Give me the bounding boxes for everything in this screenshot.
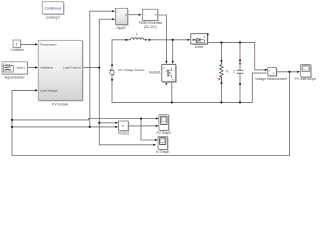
svg-text:(DC-DC): (DC-DC) xyxy=(144,25,157,29)
svg-text:PV load scope: PV load scope xyxy=(295,77,316,81)
powergui block xyxy=(42,2,64,20)
svg-text:DC Voltage Source: DC Voltage Source xyxy=(118,68,145,72)
svg-text:Diode: Diode xyxy=(195,45,204,49)
svg-text:Signal Builder: Signal Builder xyxy=(4,76,25,80)
XY graph PV Graph xyxy=(156,115,171,135)
block mppt controller xyxy=(115,8,128,30)
diode block Diode xyxy=(191,33,210,49)
wire: current from PV module output to vertical x=99.3 xyxy=(82,67,99,69)
product block xyxy=(118,121,129,136)
svg-text:powergui: powergui xyxy=(46,15,60,19)
wire: top rail from DC source through L to diode xyxy=(112,40,126,65)
wire: mppt output to PWM Generator input xyxy=(128,14,141,16)
svg-text:Voltage Measurement: Voltage Measurement xyxy=(255,77,287,81)
scope PV load scope xyxy=(295,65,316,82)
svg-text:Constant: Constant xyxy=(10,48,23,52)
node junction dots xyxy=(11,39,290,128)
svg-text:Temperature: Temperature xyxy=(40,43,57,47)
inductor L (series RLC branch) xyxy=(126,32,151,41)
subsystem PV module xyxy=(38,40,83,106)
mosfet Mosfet1 xyxy=(149,64,177,85)
XY graph IV Graph xyxy=(156,136,169,154)
wire: R branch verticals xyxy=(220,42,222,64)
wire: voltage branch line to Product input 2 xyxy=(12,126,117,128)
svg-text:Load Current: Load Current xyxy=(63,66,81,70)
wire: diode output rail to Voltage Measurement plus input xyxy=(207,42,266,70)
block PWM Generator (DC-DC) xyxy=(139,9,164,29)
svg-text:Continuous: Continuous xyxy=(45,6,62,10)
wire: Mosfet source down to bottom rail xyxy=(171,83,173,103)
wire: Product output to PV Graph input 2 xyxy=(128,125,157,127)
wire: current vertical x=99.3, up to mppt input 2, down to IV Graph input 2 xyxy=(99,19,155,145)
svg-text:IV Graph: IV Graph xyxy=(156,150,169,154)
svg-text:Signal 1: Signal 1 xyxy=(17,67,26,70)
resistor R (RLC branch) xyxy=(218,60,229,84)
svg-text:Product: Product xyxy=(118,132,129,136)
svg-text:m: m xyxy=(203,36,205,39)
svg-text:PV module: PV module xyxy=(52,102,68,106)
wire: Constant to PV Temperature input xyxy=(21,43,37,45)
constant block Constant xyxy=(10,40,23,52)
svg-text:m: m xyxy=(172,79,174,82)
wire: voltage branch line to PV Graph input 1 (step at x=88.5) xyxy=(12,119,158,120)
DC voltage source xyxy=(110,64,145,80)
wire: rail tap down to Mosfet drain xyxy=(172,40,174,62)
wire: PWM Generator output down to Mosfet gate xyxy=(158,15,167,62)
wire: Voltage Measurement output to PV load scope xyxy=(276,71,298,73)
capacitor C xyxy=(233,60,243,85)
wire: voltage up x=89.8 to mppt input 1 xyxy=(90,11,114,127)
svg-text:L: L xyxy=(136,32,138,36)
svg-text:mpptC: mpptC xyxy=(117,26,127,30)
svg-text:PV Graph: PV Graph xyxy=(156,131,171,135)
wire: C branch verticals xyxy=(239,42,241,70)
svg-text:Irradiance: Irradiance xyxy=(40,66,54,70)
wire: bottom rail xyxy=(112,73,267,102)
svg-text:1: 1 xyxy=(16,42,18,46)
voltage measurement block xyxy=(255,67,287,81)
svg-text:Mosfet1: Mosfet1 xyxy=(149,71,161,75)
svg-text:Load Voltage: Load Voltage xyxy=(40,88,58,92)
wire: Signal Builder to PV Irradiance input xyxy=(27,67,36,69)
wire: current branch to Product input 1 xyxy=(99,122,117,124)
wire: branch down from (141,118.5) to IV Graph input 1 xyxy=(141,119,157,141)
signal builder block Signal Builder xyxy=(2,62,28,80)
wire: voltage feedback from Voltage Measurement output down, left, up to PV module Load Voltage xyxy=(12,72,290,156)
